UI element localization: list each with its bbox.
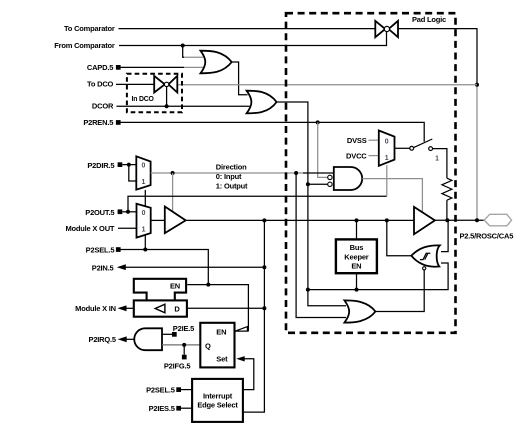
wire Module X IN to latch D box (125, 307, 134, 309)
wire A1 output (gray) to driver D2 enable (362, 179, 422, 213)
wire To Comparator horizontal (119, 28, 478, 30)
svg-text:EN: EN (351, 262, 361, 271)
wire schmitt output to data line (387, 220, 412, 255)
wire S2 control to DCOR line (166, 87, 168, 107)
terminal square P2OUT.5 (118, 209, 123, 214)
svg-text:P2DIR.5: P2DIR.5 (87, 161, 114, 170)
wire To DCO to In-DCO switch (116, 83, 154, 85)
dashed box Pad Logic (286, 13, 456, 333)
junction dot Direction to driver enable (171, 171, 175, 175)
wire To DCO continuation (gray) to pad vertical (177, 84, 477, 86)
junction dot data to schmitt output (385, 218, 389, 222)
svg-text:In DCO: In DCO (132, 96, 155, 103)
svg-text:DCOR: DCOR (92, 102, 114, 111)
junction dot P2SEL mux select (143, 248, 147, 252)
junction dot data to input path (262, 218, 266, 222)
junction dot P2SEL latch EN (206, 283, 210, 287)
svg-text:0: 0 (141, 163, 145, 170)
junction dot function-enable to AND bubble (306, 182, 310, 186)
terminal square P2DIR.5 (118, 162, 123, 167)
terminal square P2SEL.5 (116, 247, 121, 252)
svg-text:Edge Select: Edge Select (197, 400, 238, 409)
terminal square P2REN.5 (116, 120, 121, 125)
wire FF Q to A2 input (162, 344, 200, 346)
bubble schmitt enable (423, 267, 426, 270)
svg-text:1: 1 (435, 155, 439, 162)
wire pull mux select gray upper (386, 165, 388, 196)
svg-text:DVSS: DVSS (347, 136, 367, 145)
junction dot Module X IN tap (262, 306, 266, 310)
junction dot pad to resistor/schmitt (445, 218, 449, 222)
box Interrupt Edge Select (192, 379, 243, 422)
wire function-enable to AND bubble (308, 183, 328, 185)
svg-text:Interrupt: Interrupt (203, 391, 233, 400)
terminal square P2IFG.5 (182, 355, 187, 360)
svg-text:Pad Logic: Pad Logic (412, 15, 446, 24)
junction dot x=477 pad line (475, 218, 479, 222)
wire P2IES.5 to edge select (181, 407, 192, 409)
svg-text:Q: Q (205, 342, 211, 351)
svg-text:1: 1 (141, 179, 145, 186)
wire P2SEL select vertical through mux M1/M2 (144, 190, 146, 250)
svg-text:1: 1 (142, 226, 146, 233)
svg-text:Module X OUT: Module X OUT (65, 224, 114, 233)
wire From Comparator horizontal and riser to switch control (119, 32, 387, 46)
buffer D2 pad driver (414, 207, 435, 234)
svg-text:0: 0 (385, 138, 389, 145)
or-gate OR3 input disable (344, 300, 375, 322)
wire mux M2 output to driver D1 (151, 219, 165, 221)
schmitt hysteresis symbol (420, 253, 430, 259)
analog switch S1 control bubble (384, 26, 389, 31)
analog switch S2 in DCO (bowtie) (154, 76, 177, 93)
svg-text:P2OUT.5: P2OUT.5 (85, 208, 114, 217)
junction dot P2IFG tap (182, 343, 186, 347)
wire Direction branch down to bottom OR input (296, 173, 346, 318)
wire A2 output to arrow (125, 338, 134, 340)
svg-text:P2IN.5: P2IN.5 (92, 263, 114, 272)
wire mux M3 output to switch (395, 147, 410, 149)
wire P2IE.5 to A2 input (162, 333, 172, 335)
svg-text:To DCO: To DCO (87, 80, 114, 89)
junction dot P2REN branch (316, 120, 320, 124)
junction dot x=477 To DCO join (475, 83, 479, 87)
arrow Module X IN (points left) (118, 305, 127, 311)
junction dot P2IN tap (262, 265, 266, 269)
svg-text:P2IES.5: P2IES.5 (149, 404, 175, 413)
or-gate OR2 (DCO enable) (247, 91, 277, 114)
wire Module X OUT to mux M2 input 1 (118, 227, 137, 229)
wire CAPD.5 to OR1 input (184, 66, 203, 68)
svg-text:EN: EN (216, 327, 226, 336)
wire bus keeper top to data line (356, 220, 358, 239)
wire P2OUT.5 to mux M2 input 0 (122, 211, 136, 213)
junction dot data to bus keeper (355, 218, 359, 222)
latch U1 clock triangle (155, 304, 165, 313)
wire P2REN.5 to switch lever (121, 122, 425, 141)
terminal square P2IE.5 (172, 332, 177, 337)
wire pad vertical at x=477 (lower gray to pad) (476, 85, 478, 221)
flip-flop U2 interrupt flag (200, 323, 234, 368)
svg-text:Keeper: Keeper (344, 252, 369, 261)
analog switch S2 control bubble (164, 82, 168, 86)
wire bus keeper bottom to enable net (356, 273, 358, 289)
junction dot function-enable to buskeeper net (306, 288, 310, 292)
wire Direction line (gray) from M1 to AND input (151, 172, 303, 174)
wire resistor to pad line (446, 200, 448, 220)
svg-text:P2SEL.5: P2SEL.5 (146, 386, 175, 395)
arrow P2IRQ.5 (points left) (118, 336, 127, 342)
wire DCOR to OR2 input (117, 105, 250, 107)
analog switch S1 to comparator (bowtie) (375, 21, 398, 37)
resistor R1 pull resistor (442, 178, 452, 200)
svg-text:P2SEL.5: P2SEL.5 (86, 246, 115, 255)
wire input vertical x=264.4 from data line to edge select (243, 220, 265, 412)
svg-text:P2REN.5: P2REN.5 (83, 118, 113, 127)
wire latch D box right to input vertical (187, 307, 265, 309)
or-gate OR1 (comparator enable) (201, 51, 232, 74)
svg-text:D: D (174, 305, 180, 314)
terminal square P2IES.5 (176, 406, 181, 411)
terminal square P2SEL.5 bottom (176, 387, 181, 392)
wire OR2 output down to bottom OR (net: function enable) (277, 102, 346, 306)
switch SW lever (414, 139, 433, 148)
junction dot P2DIR branch (127, 163, 131, 167)
svg-text:P2.5/ROSC/CA5: P2.5/ROSC/CA5 (460, 232, 514, 241)
svg-text:DVCC: DVCC (346, 151, 367, 160)
bubble A1 input lower (328, 182, 332, 186)
wire OR1 output to OR2 input (232, 62, 248, 95)
dashed box In DCO (127, 74, 182, 113)
wire DVCC lead (369, 155, 379, 157)
wire P2IN.5 line (125, 266, 265, 268)
latch U1 input latch (EN top box with notch) (134, 279, 186, 301)
wire bus keeper enable net horizontal (308, 263, 448, 290)
mux M1 (P2DIR / module direction) (136, 156, 150, 189)
wire pad to schmitt input (441, 220, 448, 251)
svg-text:P2IRQ.5: P2IRQ.5 (89, 335, 116, 344)
wire P2DIR.5 to mux M1 inputs 0 and 1 (122, 165, 136, 181)
wire Set from edge select (243, 359, 254, 390)
terminal square CAPD.5 (116, 65, 121, 70)
flip-flop U2 EN edge flag (235, 327, 247, 332)
box Bus Keeper EN (336, 239, 377, 273)
switch SW resistor enable contacts (410, 146, 414, 150)
wire DVSS lead (369, 139, 379, 141)
wire switch to resistor (433, 149, 447, 179)
buffer D1 output driver (165, 207, 186, 234)
junction dot bus keeper enable (355, 288, 359, 292)
svg-text:1: 1 (385, 155, 389, 162)
and-gate A1 pull-resistor enable (two bubbled inputs) (334, 167, 362, 190)
svg-text:0: 0 (142, 210, 146, 217)
wire P2IFG drop (183, 345, 185, 355)
arrow Set input (points left) (236, 356, 245, 361)
mux M2 (P2OUT / module out) (137, 204, 151, 238)
bubble A1 input upper (328, 175, 332, 179)
svg-text:To Comparator: To Comparator (64, 24, 115, 33)
wire P2SEL.5 to latch EN and FF EN (121, 250, 249, 331)
junction dot DCOR control (165, 104, 169, 108)
svg-text:P2IE.5: P2IE.5 (173, 324, 194, 333)
svg-text:1: Output: 1: Output (216, 182, 248, 191)
svg-text:Direction: Direction (216, 163, 247, 172)
pin hexagon P2.5 pad (484, 214, 511, 226)
and-gate A2 interrupt (points left) (134, 328, 162, 350)
junction dot From Comparator branch (181, 44, 185, 48)
wire P2REN branch (gray) to AND input bubble (318, 122, 328, 177)
junction dot Direction to bottom OR branch (294, 171, 298, 175)
wire data line from D1 to D2 (186, 219, 414, 221)
svg-text:0: Input: 0: Input (216, 172, 242, 181)
wire Direction line black tail into AND (303, 172, 334, 174)
arrow P2IN.5 (points left) (117, 264, 126, 270)
svg-text:From Comparator: From Comparator (54, 41, 115, 50)
svg-text:CAPD.5: CAPD.5 (87, 63, 113, 72)
svg-text:Set: Set (216, 355, 228, 364)
svg-text:Module X IN: Module X IN (75, 304, 116, 313)
schmitt trigger input buffer (points left) (411, 245, 440, 266)
wire P2OUT branch up and over to pull mux select (128, 196, 387, 212)
svg-text:EN: EN (170, 282, 180, 291)
wire P2SEL.5 to edge select (181, 389, 192, 391)
wire pad-to-comparator vertical at x=477 (upper black) (476, 28, 478, 85)
mux M3 pull-up/pull-down select (379, 131, 395, 166)
svg-text:P2IFG.5: P2IFG.5 (164, 362, 191, 371)
wire OR3 output to schmitt enable bubble (375, 270, 424, 312)
svg-text:Bus: Bus (350, 243, 364, 252)
junction dot P2OUT branch to pull mux select (126, 210, 130, 214)
wire From Comparator branch to OR1 input (183, 56, 203, 58)
wire D2 output to pad (435, 219, 484, 221)
wire Direction enable drop (gray) to driver D1 (172, 173, 174, 212)
latch U1 D box (134, 300, 187, 316)
